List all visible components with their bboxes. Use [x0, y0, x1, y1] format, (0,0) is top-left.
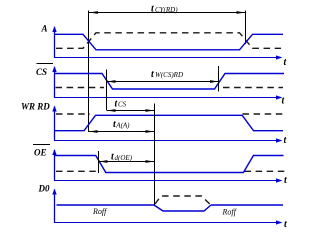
reference line V2 (cycle end) — [245, 11, 247, 45]
signal label CS (overlined) — [36, 64, 53, 78]
signal label OE (overlined) — [33, 145, 50, 158]
signal WR/RD dashed alternate state (left) — [56, 113, 90, 115]
axis of row A — [52, 26, 287, 68]
svg-text:d(OE): d(OE) — [115, 154, 133, 162]
signal A waveform — [54, 34, 283, 50]
dimension t_W(CS(RD)) — [107, 69, 219, 83]
svg-text:WR RD: WR RD — [21, 101, 50, 111]
signal OE dashed alternate state (left) — [56, 170, 96, 172]
signal CS dashed alternate state (right) — [223, 87, 283, 89]
svg-text:Roff: Roff — [222, 208, 238, 217]
svg-text:A: A — [41, 24, 48, 34]
axis of row D0 — [52, 189, 288, 231]
reference line V5 (data valid start) — [154, 104, 156, 206]
signal A dashed alternate state — [56, 33, 281, 49]
svg-text:W(CS)RD: W(CS)RD — [155, 71, 183, 79]
signal D0 high-Z baseline (left) — [57, 204, 155, 206]
dimension t_d(OE) — [99, 152, 155, 163]
svg-text:OE: OE — [34, 148, 47, 158]
axis of row CS — [52, 66, 285, 107]
signal CS waveform — [54, 74, 284, 90]
signal D0 high-Z baseline (right) — [211, 204, 283, 206]
data valid bubble dashed top — [155, 196, 210, 204]
signal OE dashed alternate state (right) — [245, 170, 286, 172]
svg-text:A(A): A(A) — [115, 121, 130, 129]
svg-text:D0: D0 — [38, 184, 50, 194]
reference line V4 (CS rise) — [218, 66, 220, 92]
signal WR/RD waveform — [54, 115, 283, 130]
svg-text:CY(RD): CY(RD) — [155, 6, 178, 14]
reference line V1 (cycle start) — [88, 11, 90, 133]
svg-text:CS: CS — [36, 67, 47, 77]
dimension t_CY(RD) — [89, 4, 246, 15]
axis of row WR/RD — [52, 106, 287, 147]
dimension t_A(A) — [89, 119, 155, 133]
dimension t_CS — [107, 98, 155, 112]
signal OE waveform — [54, 156, 284, 173]
signal CS dashed alternate state — [56, 87, 105, 89]
svg-text:Roff: Roff — [92, 207, 108, 216]
reference line V6 (OE fall) — [98, 151, 100, 173]
axis of row OE — [52, 149, 288, 186]
svg-text:CS: CS — [118, 100, 127, 108]
signal WR/RD dashed alternate state (right) — [243, 113, 285, 115]
reference line V3 (CS fall) — [106, 70, 108, 111]
data valid bubble solid bottom — [154, 205, 211, 211]
